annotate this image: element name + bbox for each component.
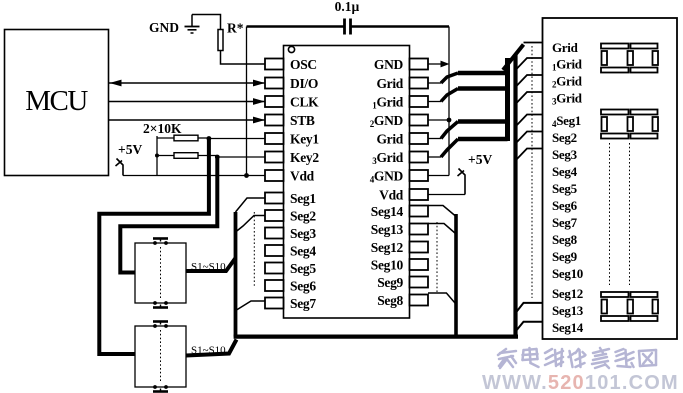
- svg-text:Seg4: Seg4: [290, 244, 316, 259]
- svg-text:Seg2: Seg2: [290, 209, 316, 224]
- svg-text:+5V: +5V: [118, 142, 142, 157]
- svg-text:0.1µ: 0.1µ: [335, 0, 360, 14]
- svg-text:Seg9: Seg9: [552, 249, 578, 264]
- svg-text:+5V: +5V: [468, 152, 492, 167]
- svg-text:Grid: Grid: [376, 132, 403, 147]
- svg-text:3Grid: 3Grid: [552, 91, 583, 107]
- svg-text:Seg8: Seg8: [552, 232, 578, 247]
- svg-text:Grid: Grid: [552, 40, 579, 55]
- svg-text:4GND: 4GND: [370, 169, 404, 185]
- svg-text:GND: GND: [149, 20, 179, 35]
- svg-text:Seg10: Seg10: [371, 258, 404, 273]
- svg-text:Seg3: Seg3: [290, 226, 316, 241]
- svg-text:Seg12: Seg12: [552, 286, 583, 301]
- svg-text:Seg5: Seg5: [290, 261, 316, 276]
- svg-text:Seg4: Seg4: [552, 164, 578, 179]
- svg-text:Seg2: Seg2: [552, 130, 577, 145]
- svg-text:GND: GND: [374, 57, 404, 72]
- svg-text:R*: R*: [227, 21, 244, 36]
- svg-text:1Grid: 1Grid: [552, 57, 583, 73]
- svg-text:OSC: OSC: [290, 57, 317, 72]
- svg-text:Seg3: Seg3: [552, 147, 578, 162]
- svg-text:Seg14: Seg14: [371, 204, 404, 219]
- svg-text:1Grid: 1Grid: [372, 95, 404, 111]
- svg-text:Seg7: Seg7: [290, 296, 316, 311]
- svg-text:Seg1: Seg1: [290, 191, 316, 206]
- svg-text:WWW.520101.COM: WWW.520101.COM: [482, 372, 679, 393]
- svg-text:CLK: CLK: [290, 95, 319, 110]
- svg-text:Seg8: Seg8: [377, 293, 403, 308]
- svg-text:Key1: Key1: [290, 132, 319, 147]
- svg-text:Grid: Grid: [376, 76, 403, 91]
- svg-text:Seg9: Seg9: [377, 275, 403, 290]
- svg-text:MCU: MCU: [25, 85, 88, 117]
- svg-text:STB: STB: [290, 113, 315, 128]
- svg-text:DI/O: DI/O: [290, 76, 318, 91]
- svg-text:Seg13: Seg13: [552, 303, 584, 318]
- svg-text:2Grid: 2Grid: [552, 74, 583, 90]
- svg-text:Seg10: Seg10: [552, 266, 583, 281]
- svg-text:Seg13: Seg13: [371, 222, 404, 237]
- svg-text:Seg6: Seg6: [290, 279, 316, 294]
- svg-text:4Seg1: 4Seg1: [552, 113, 581, 129]
- svg-text:Seg12: Seg12: [371, 240, 404, 255]
- svg-text:2×10K: 2×10K: [143, 121, 182, 136]
- svg-text:Seg5: Seg5: [552, 181, 578, 196]
- svg-text:Seg6: Seg6: [552, 198, 578, 213]
- svg-text:Seg14: Seg14: [552, 320, 584, 335]
- svg-text:Vdd: Vdd: [379, 188, 404, 203]
- svg-text:Vdd: Vdd: [290, 169, 315, 184]
- svg-text:3Grid: 3Grid: [372, 150, 404, 166]
- svg-text:Seg7: Seg7: [552, 215, 578, 230]
- svg-text:Key2: Key2: [290, 150, 319, 165]
- svg-text:2GND: 2GND: [370, 113, 404, 129]
